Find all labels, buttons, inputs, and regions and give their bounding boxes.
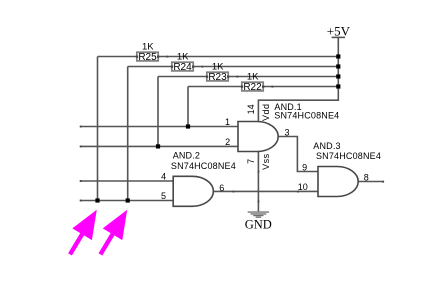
svg-text:GND: GND bbox=[245, 217, 272, 231]
svg-text:1: 1 bbox=[225, 117, 230, 127]
svg-text:SN74HC08NE4: SN74HC08NE4 bbox=[316, 151, 381, 161]
svg-text:R23: R23 bbox=[208, 72, 227, 83]
svg-text:SN74HC08NE4: SN74HC08NE4 bbox=[274, 110, 339, 120]
svg-text:2: 2 bbox=[225, 137, 230, 147]
svg-text:8: 8 bbox=[364, 172, 369, 182]
svg-text:4: 4 bbox=[161, 171, 166, 181]
svg-text:SN74HC08NE4: SN74HC08NE4 bbox=[171, 161, 236, 171]
svg-text:1K: 1K bbox=[142, 42, 154, 53]
svg-text:5: 5 bbox=[161, 191, 166, 201]
svg-text:AND.2: AND.2 bbox=[173, 150, 200, 160]
svg-text:+5V: +5V bbox=[327, 23, 351, 38]
svg-text:R24: R24 bbox=[173, 62, 192, 73]
svg-text:R22: R22 bbox=[243, 82, 262, 93]
svg-text:AND.3: AND.3 bbox=[313, 141, 340, 151]
svg-text:R25: R25 bbox=[138, 52, 157, 63]
svg-text:9: 9 bbox=[302, 162, 307, 172]
svg-text:Vdd: Vdd bbox=[261, 103, 271, 121]
svg-text:1K: 1K bbox=[247, 72, 259, 83]
svg-text:7: 7 bbox=[246, 159, 256, 164]
svg-text:1K: 1K bbox=[212, 62, 224, 73]
svg-text:6: 6 bbox=[219, 183, 224, 193]
svg-text:Vss: Vss bbox=[261, 153, 271, 170]
svg-text:14: 14 bbox=[246, 104, 256, 114]
svg-text:10: 10 bbox=[298, 182, 308, 192]
svg-text:3: 3 bbox=[284, 127, 289, 137]
svg-text:1K: 1K bbox=[177, 52, 189, 63]
